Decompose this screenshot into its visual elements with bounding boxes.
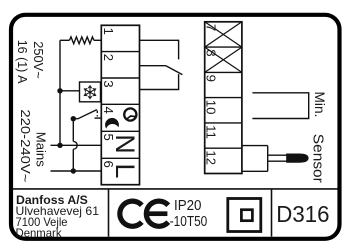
double insulation symbol inner square [241, 210, 252, 221]
svg-text:8: 8 [203, 49, 218, 56]
relay blade [166, 66, 183, 75]
svg-text:2: 2 [101, 54, 116, 61]
X mark terminal 8 unused [205, 47, 242, 72]
junction node L branch to L wire [71, 168, 76, 173]
terminal block TB2 outline [205, 22, 242, 174]
svg-text:IP20: IP20 [174, 198, 202, 214]
svg-text:7: 7 [203, 24, 218, 31]
svg-text:L: L [110, 163, 140, 178]
wire hop over N wire [73, 141, 77, 149]
sensor probe [286, 154, 308, 163]
wire: L vertical branch upper [72, 119, 74, 142]
strip divider 2 [271, 189, 273, 237]
wire: terminal 12 sensor lead [242, 170, 268, 172]
wire: contact to terminal 4 [95, 117, 102, 119]
wire: bus to snowflake box [60, 90, 80, 92]
wire: L mains wire to terminal 6 [51, 170, 102, 172]
svg-text:250V~: 250V~ [31, 41, 46, 79]
moon symbol (night setback) [105, 118, 119, 129]
svg-text:12: 12 [203, 150, 218, 165]
mechanical link (dashed) [96, 111, 98, 117]
CE mark letter E [144, 199, 170, 229]
Min potentiometer box [252, 93, 308, 119]
svg-text:-10T50: -10T50 [170, 214, 208, 230]
double insulation symbol outer square [228, 199, 261, 232]
svg-text:10: 10 [203, 100, 218, 115]
bottom strip separator line [13, 188, 338, 190]
svg-text:1: 1 [101, 28, 116, 35]
svg-text:Min.: Min. [312, 92, 327, 118]
svg-text:3: 3 [101, 80, 116, 87]
wire: L vertical branch lower [72, 149, 74, 171]
wire: terminal 1 to relay fixed contact [140, 40, 179, 59]
svg-text:Denmark: Denmark [16, 226, 63, 240]
svg-text:16 (1) A: 16 (1) A [15, 40, 29, 84]
svg-text:4: 4 [101, 107, 116, 114]
junction node bus to N wire [57, 143, 62, 148]
wire: terminal 3 to relay contact [140, 74, 179, 89]
wire: terminal 11 sensor lead [242, 145, 268, 147]
junction node on bus at snowflake tap [57, 88, 62, 93]
TB1 cell dividers [101, 52, 139, 159]
X mark terminal 7 unused [205, 22, 242, 47]
svg-text:D316: D316 [276, 201, 329, 227]
strip divider 1 [108, 189, 110, 237]
clock symbol (timer) [124, 108, 136, 120]
wire: snowflake box to terminal 3 [100, 90, 103, 92]
CE mark letter C [117, 199, 143, 229]
svg-text:11: 11 [203, 125, 218, 139]
wire: left vertical bus from resistor to N wire [59, 40, 61, 145]
wire: sensor lead join [267, 146, 269, 172]
wire: terminal 2 relay common [140, 65, 166, 67]
svg-text:N: N [110, 134, 140, 154]
snowflake thermostat box [80, 82, 101, 102]
resistor (load) [69, 37, 94, 44]
wire: lead from bus to resistor [60, 39, 69, 41]
wire: N mains wire to terminal 5 [51, 144, 102, 146]
svg-text:220-240V~: 220-240V~ [18, 109, 33, 182]
junction node on L branch (blade pivot) [71, 116, 76, 121]
svg-text:Sensor: Sensor [310, 134, 327, 183]
defrost contact blade [73, 110, 97, 119]
snowflake symbol [84, 86, 96, 99]
wire: resistor to terminal 1 [94, 39, 101, 41]
TB2 cell dividers [205, 47, 242, 148]
wire: sensor cable pair [268, 154, 288, 156]
svg-text:9: 9 [203, 75, 218, 82]
terminal block TB1 outline [101, 25, 139, 184]
svg-text:Mains: Mains [34, 132, 49, 167]
